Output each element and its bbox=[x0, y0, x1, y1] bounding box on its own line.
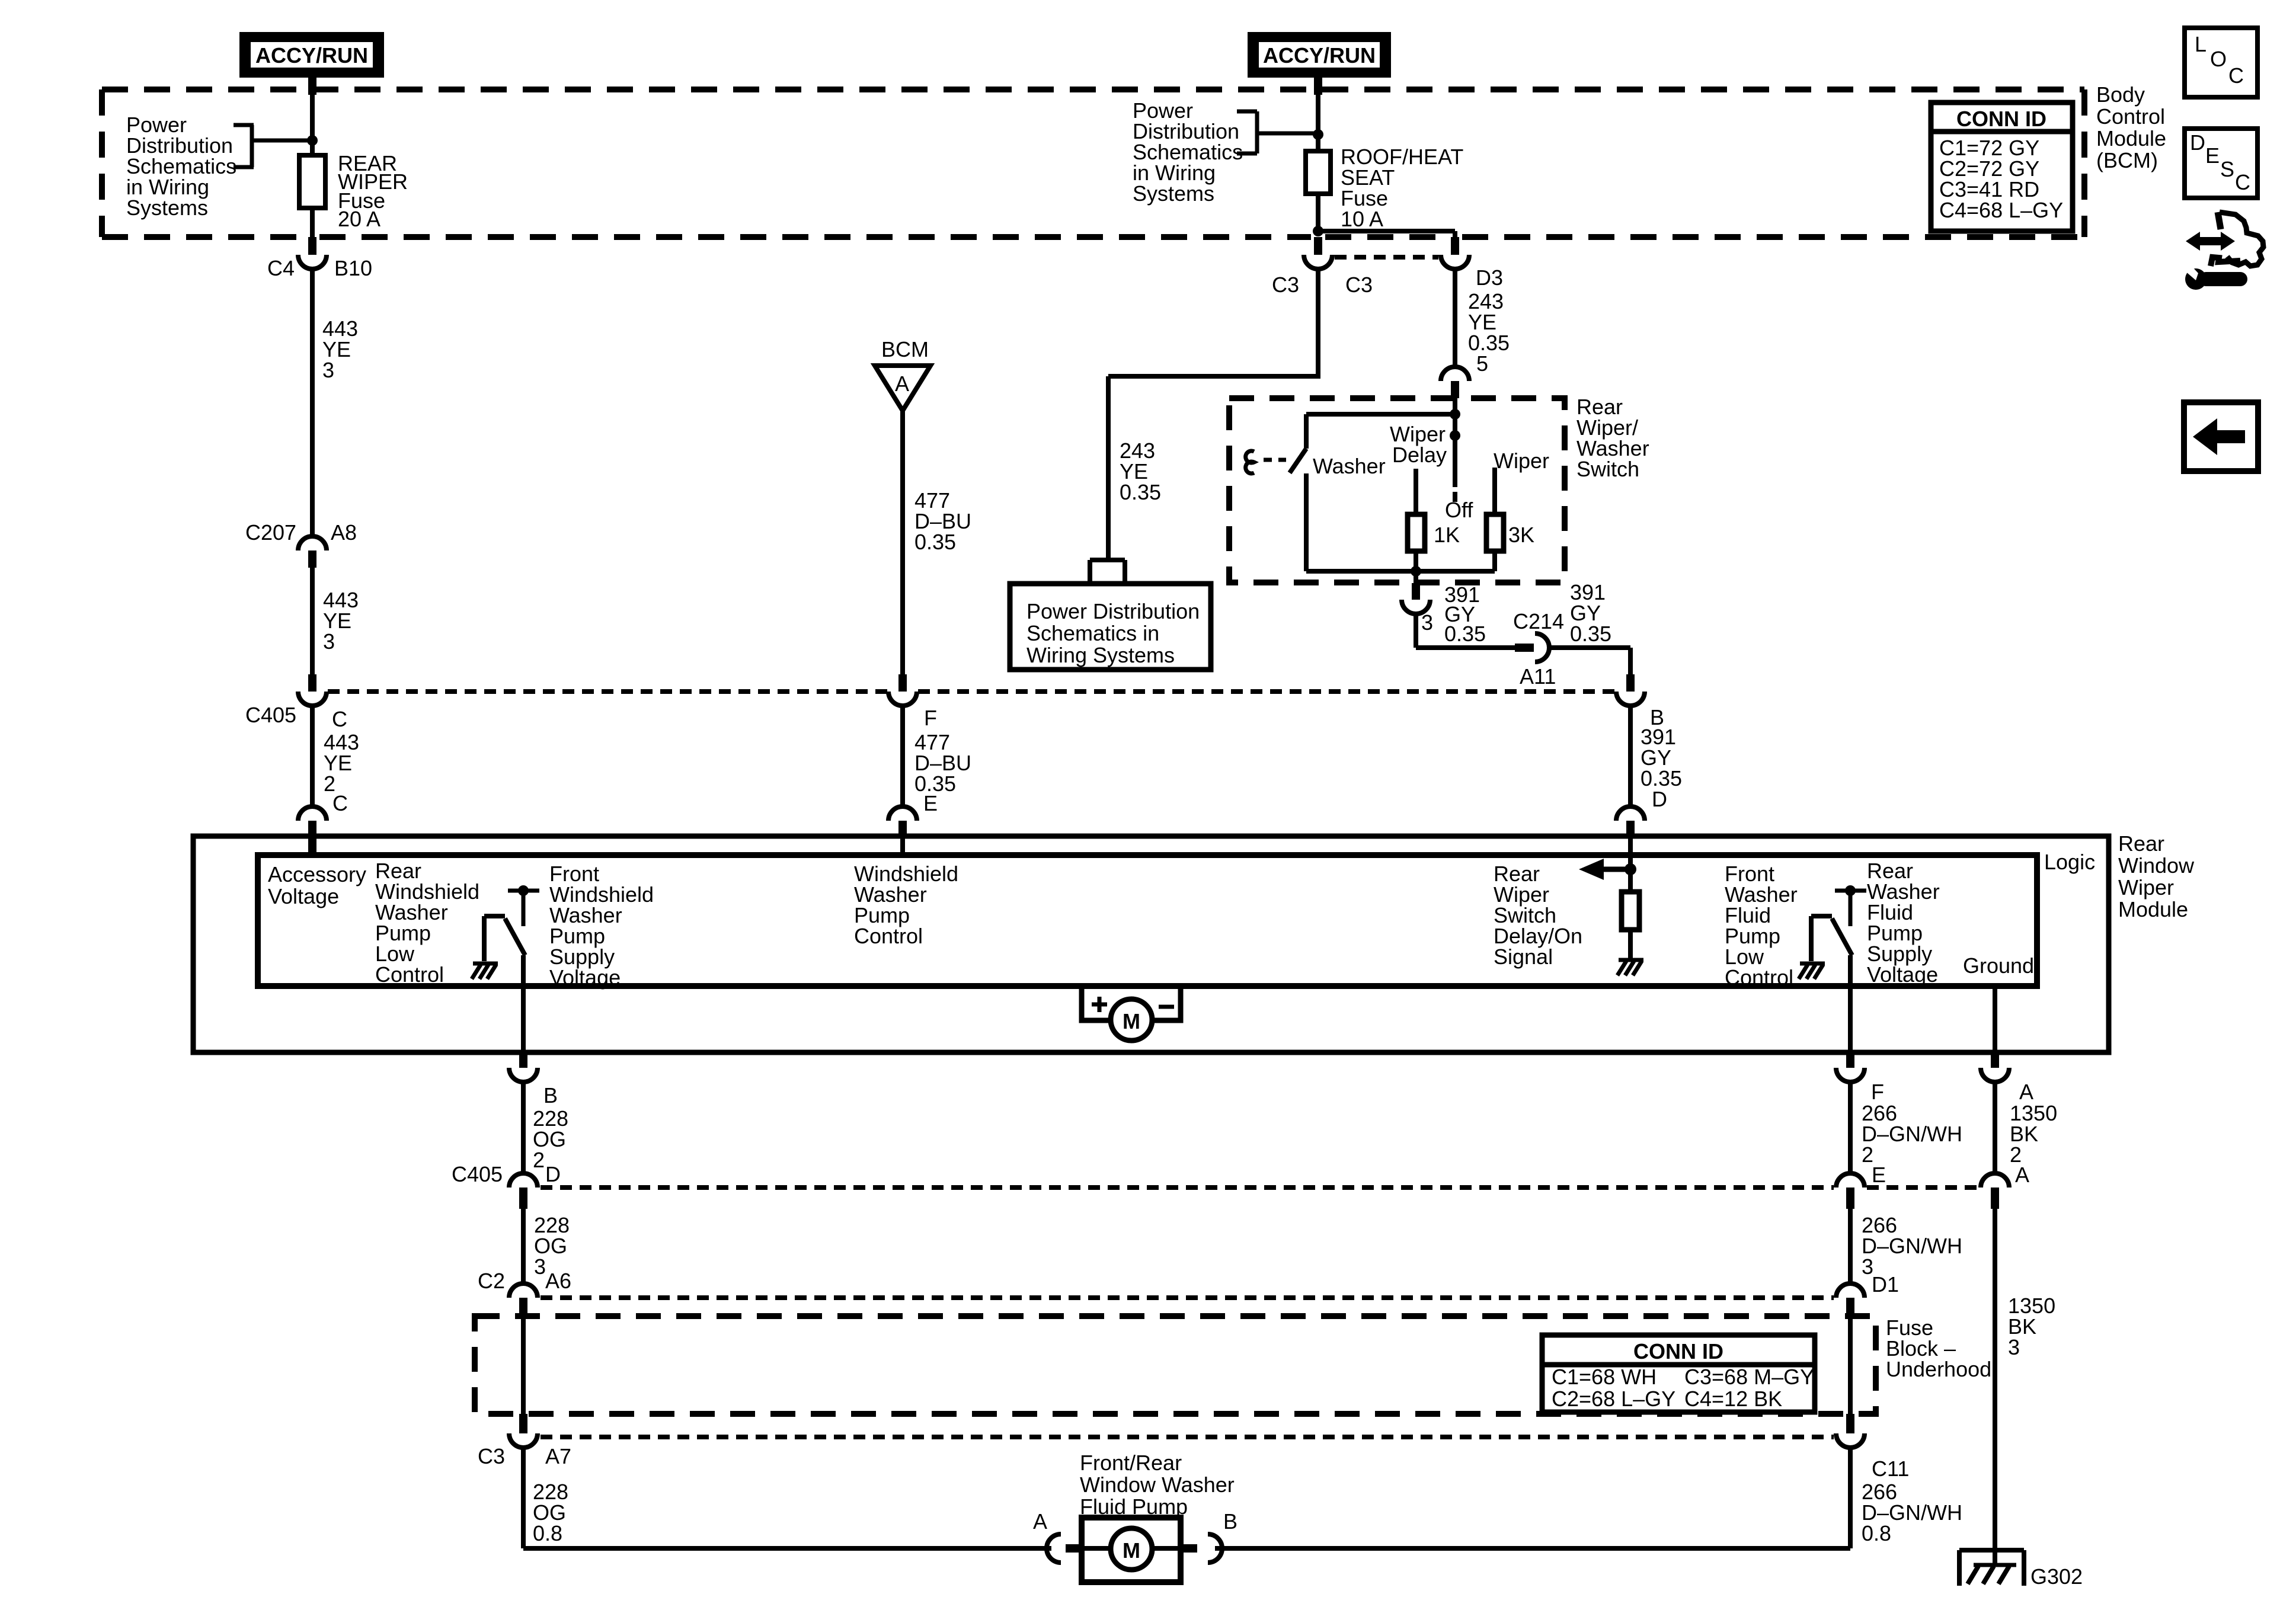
svg-text:BCM: BCM bbox=[881, 337, 929, 361]
svg-text:B: B bbox=[1223, 1509, 1237, 1534]
svg-text:C3: C3 bbox=[1345, 273, 1373, 297]
wire fuse to BCM edge bbox=[310, 208, 315, 237]
svg-text:5: 5 bbox=[1476, 351, 1488, 376]
svg-text:F: F bbox=[1871, 1080, 1884, 1104]
off-page tab into Power Distribution box bbox=[1090, 560, 1125, 584]
wire 1350 BK 3 to ground bbox=[1993, 1209, 1997, 1565]
svg-text:C: C bbox=[2228, 63, 2244, 88]
connector D3 bbox=[1441, 237, 1503, 290]
connector D1 (dome) bbox=[1836, 1272, 1899, 1319]
wire out of switch bbox=[1414, 571, 1418, 583]
svg-text:Wiper: Wiper bbox=[2118, 875, 2174, 900]
Body Control Module dashed boundary bbox=[102, 89, 2084, 237]
svg-text:3K: 3K bbox=[1508, 523, 1534, 547]
svg-text:Body: Body bbox=[2096, 82, 2145, 107]
junction node below fuse2 bbox=[1313, 226, 1323, 236]
module pin F connector bbox=[1836, 1052, 1884, 1104]
switch position labels bbox=[1313, 422, 1549, 547]
svg-text:B: B bbox=[543, 1083, 558, 1108]
svg-text:Signal: Signal bbox=[1494, 945, 1553, 969]
svg-text:2: 2 bbox=[533, 1148, 545, 1172]
svg-text:Window Washer: Window Washer bbox=[1080, 1473, 1235, 1497]
Rear Window Wiper Module outer box bbox=[193, 836, 2109, 1052]
svg-text:Rear: Rear bbox=[2118, 831, 2164, 856]
wire 228 OG 3 bbox=[521, 1209, 526, 1283]
svg-text:A7: A7 bbox=[545, 1444, 571, 1468]
wire 266 D-GN/WH 2 bbox=[1848, 1081, 1853, 1174]
svg-text:C4: C4 bbox=[267, 256, 295, 280]
power feed box ACCY/RUN (left) bbox=[239, 32, 384, 78]
svg-text:M: M bbox=[1123, 1009, 1140, 1033]
svg-text:C3=68 M–GY: C3=68 M–GY bbox=[1684, 1365, 1814, 1389]
svg-text:Off: Off bbox=[1445, 498, 1473, 522]
pin wire Windshield Washer Pump Control bbox=[900, 836, 905, 856]
svg-text:C405: C405 bbox=[245, 703, 296, 727]
connector E (dome, x3122) bbox=[1836, 1163, 1886, 1209]
label Power Distribution Schematics (left) bbox=[126, 113, 236, 220]
wire into switch pole bbox=[1453, 398, 1457, 487]
svg-text:E: E bbox=[923, 791, 938, 815]
ground (internal, left switch) bbox=[472, 964, 498, 979]
node: pole to washer contact bbox=[1450, 409, 1460, 420]
svg-text:0.35: 0.35 bbox=[1444, 622, 1486, 646]
svg-text:(BCM): (BCM) bbox=[2096, 148, 2158, 172]
svg-text:Washer: Washer bbox=[1313, 454, 1386, 478]
svg-text:F: F bbox=[924, 706, 937, 730]
internal switch (front washer pump relay, right) bbox=[1811, 891, 1866, 1052]
svg-text:Accessory: Accessory bbox=[268, 862, 366, 886]
wire C3 down-left to Power Distribution box bbox=[1108, 268, 1320, 560]
svg-text:B10: B10 bbox=[334, 256, 372, 280]
pin label Windshield Washer Pump Control bbox=[854, 862, 958, 948]
svg-text:ACCY/RUN: ACCY/RUN bbox=[1263, 43, 1376, 68]
svg-text:Switch: Switch bbox=[1576, 457, 1639, 481]
svg-text:ACCY/RUN: ACCY/RUN bbox=[255, 43, 368, 68]
svg-text:C: C bbox=[332, 707, 347, 731]
svg-text:3: 3 bbox=[322, 358, 334, 382]
module pin A connector bbox=[1981, 1052, 2033, 1104]
svg-text:Power Distribution: Power Distribution bbox=[1027, 599, 1200, 623]
module pin B connector bbox=[509, 1052, 558, 1108]
label Power Distribution Schematics (mid) bbox=[1133, 98, 1243, 206]
connector D into module (dome) bbox=[1616, 806, 1645, 836]
jump-to icon: pointer outline bbox=[2218, 212, 2263, 266]
bracket from label to wire (left) bbox=[234, 125, 310, 167]
jump-to icon: double arrow bbox=[2186, 232, 2235, 251]
pin wire Rear Wiper Switch signal bbox=[1628, 836, 1633, 856]
internal switch (rear washer pump relay, left) bbox=[484, 891, 539, 1052]
ground (internal, sense resistor) bbox=[1617, 960, 1643, 975]
connector C2/A6 (dome) bbox=[478, 1269, 571, 1319]
wire from ACCY/RUN left down to fuse bbox=[310, 78, 315, 155]
svg-text:A: A bbox=[2015, 1163, 2029, 1187]
svg-text:Module: Module bbox=[2118, 897, 2188, 921]
wire D3 down to switch bbox=[1453, 268, 1457, 367]
svg-text:C1=68 WH: C1=68 WH bbox=[1552, 1365, 1657, 1389]
svg-text:C4=68 L–GY: C4=68 L–GY bbox=[1939, 198, 2063, 222]
svg-text:A11: A11 bbox=[1520, 664, 1556, 689]
pole off-position dash bbox=[1453, 492, 1457, 502]
wire 266 D-GN/WH 0.8 bbox=[1215, 1446, 1850, 1548]
connector C405/D (dome, x883) bbox=[452, 1162, 561, 1209]
wire 1350 BK 2 bbox=[1993, 1081, 1997, 1174]
jump-to icon: wrench bbox=[2183, 264, 2240, 290]
wire 443 YE 3 (lower) bbox=[310, 568, 315, 674]
CONN ID table (fuse block) bbox=[1542, 1335, 1815, 1412]
node on pole (delay feed) bbox=[1450, 430, 1460, 441]
pin label Front Windshield Washer Pump Supply Voltage bbox=[549, 862, 654, 990]
pin stub Accessory Voltage bbox=[308, 836, 316, 856]
wire ACCY/RUN right down bbox=[1316, 78, 1320, 151]
svg-text:10 A: 10 A bbox=[1341, 207, 1383, 231]
svg-text:0.35: 0.35 bbox=[914, 530, 956, 554]
svg-text:Wiring Systems: Wiring Systems bbox=[1027, 643, 1175, 667]
Rear Window Wiper Module logic box bbox=[258, 855, 2037, 986]
wire BCM triangle down bbox=[900, 411, 905, 674]
svg-text:Schematics in: Schematics in bbox=[1027, 621, 1159, 645]
DESC reference box bbox=[2185, 129, 2257, 198]
connector C214 / A11 bbox=[1513, 609, 1564, 689]
wires through fuse block bbox=[521, 1319, 526, 1414]
svg-text:3: 3 bbox=[534, 1254, 546, 1279]
svg-text:L: L bbox=[2195, 32, 2207, 56]
svg-text:C2=68 L–GY: C2=68 L–GY bbox=[1552, 1387, 1675, 1411]
svg-text:Voltage: Voltage bbox=[549, 965, 621, 990]
svg-text:Control: Control bbox=[375, 962, 444, 987]
svg-text:Delay: Delay bbox=[1392, 443, 1447, 467]
svg-text:A: A bbox=[2019, 1080, 2033, 1104]
svg-text:CONN ID: CONN ID bbox=[1956, 107, 2046, 131]
svg-text:Front/Rear: Front/Rear bbox=[1080, 1451, 1182, 1475]
connector E into module (dome) bbox=[888, 806, 917, 836]
CONN ID table (BCM) bbox=[1931, 103, 2073, 231]
svg-text:Voltage: Voltage bbox=[1867, 962, 1938, 987]
svg-text:O: O bbox=[2210, 47, 2227, 71]
svg-text:Window: Window bbox=[2118, 853, 2195, 878]
svg-text:C3: C3 bbox=[478, 1444, 505, 1468]
wire 228 OG 0.8 bbox=[523, 1446, 1051, 1548]
BCM triangle reference A bbox=[875, 337, 930, 411]
svg-text:3: 3 bbox=[2008, 1335, 2020, 1359]
wire label 243 YE 0.35 (left) bbox=[1120, 438, 1161, 504]
label Rear Window Wiper Module bbox=[2118, 831, 2195, 921]
svg-text:D3: D3 bbox=[1476, 265, 1503, 290]
connector F (C405 row) bbox=[888, 674, 937, 730]
svg-text:0.8: 0.8 bbox=[1862, 1521, 1891, 1545]
svg-text:Control: Control bbox=[2096, 104, 2165, 129]
svg-text:C: C bbox=[332, 791, 348, 815]
svg-text:A: A bbox=[1033, 1509, 1047, 1534]
svg-text:A: A bbox=[895, 372, 909, 396]
svg-text:D: D bbox=[2190, 130, 2205, 155]
fuse ROOF/HEAT SEAT 10 A bbox=[1306, 151, 1331, 194]
wire 443 YE 2 bbox=[310, 705, 315, 807]
svg-text:C: C bbox=[2235, 170, 2250, 194]
wire 477 D-BU 0.35 lower bbox=[900, 705, 905, 807]
svg-text:Voltage: Voltage bbox=[268, 884, 339, 908]
svg-text:E: E bbox=[2205, 143, 2220, 168]
washer contact feed line bbox=[1306, 412, 1455, 417]
Fuse Block - Underhood dashed box bbox=[475, 1316, 1876, 1414]
svg-text:1K: 1K bbox=[1434, 523, 1460, 547]
dotted connector link C3-D3 bbox=[1335, 255, 1438, 260]
pin label Front Washer Fluid Pump Low Control bbox=[1725, 862, 1798, 990]
wiper motor in module bbox=[1082, 986, 1181, 1041]
ground (internal, right switch) bbox=[1799, 964, 1825, 979]
jump-to icon: lower stroke bbox=[2211, 257, 2240, 266]
svg-text:0.35: 0.35 bbox=[1120, 480, 1161, 504]
svg-text:3: 3 bbox=[323, 629, 335, 654]
Power Distribution Schematics box bbox=[1010, 584, 1211, 670]
svg-text:Module: Module bbox=[2096, 126, 2166, 151]
svg-text:Systems: Systems bbox=[126, 196, 208, 220]
wire 266 D-GN/WH 3 bbox=[1848, 1209, 1853, 1283]
svg-text:D1: D1 bbox=[1872, 1272, 1899, 1297]
in-line connector row C2/D1 (dotted) bbox=[541, 1295, 1834, 1300]
connector C207/A8 bbox=[245, 520, 357, 568]
svg-text:Ground: Ground bbox=[1963, 953, 2034, 978]
resistor 1K bbox=[1414, 469, 1418, 514]
svg-text:CONN ID: CONN ID bbox=[1633, 1339, 1723, 1363]
svg-text:M: M bbox=[1123, 1538, 1140, 1563]
svg-text:C4=12 BK: C4=12 BK bbox=[1684, 1387, 1782, 1411]
svg-text:C11: C11 bbox=[1872, 1457, 1909, 1481]
switch bottom bus bbox=[1306, 569, 1495, 574]
Front/Rear Window Washer Fluid Pump motor bbox=[1082, 1518, 1181, 1582]
wire label 243 YE 0.35 5 (right) bbox=[1468, 289, 1510, 376]
svg-text:3: 3 bbox=[1421, 610, 1433, 635]
pin label Rear Wiper Switch Delay/On Signal bbox=[1494, 862, 1582, 969]
wire 443 YE 3 (upper) bbox=[310, 268, 315, 537]
svg-text:Control: Control bbox=[1725, 965, 1793, 990]
svg-text:C2: C2 bbox=[478, 1269, 505, 1293]
junction node on right feed bbox=[1313, 129, 1323, 140]
junction node on left feed bbox=[307, 135, 318, 146]
connector C11 bbox=[1836, 1414, 1909, 1481]
in-line connector row C405 (dotted harness line) bbox=[328, 689, 1615, 694]
internal sense resistor + arrow bbox=[1628, 856, 1633, 892]
branch wire to D3 bbox=[1318, 229, 1455, 233]
svg-text:Underhood: Underhood bbox=[1886, 1357, 1991, 1381]
fuse REAR WIPER 20 A bbox=[299, 155, 325, 208]
svg-text:A8: A8 bbox=[331, 520, 357, 545]
connector 5 into switch (dome) bbox=[1441, 367, 1469, 398]
connector C into module (dome) bbox=[298, 806, 327, 836]
pin label Rear Windshield Washer Pump Low Control bbox=[375, 859, 479, 987]
connector C405/C (left) bbox=[245, 674, 347, 731]
washer switch lever bbox=[1290, 414, 1306, 571]
svg-text:A6: A6 bbox=[545, 1269, 571, 1293]
svg-text:Systems: Systems bbox=[1133, 181, 1214, 206]
back-arrow box bbox=[2184, 402, 2258, 471]
in-line connector row C3/C11 (dotted) bbox=[541, 1435, 1834, 1439]
svg-text:E: E bbox=[1872, 1163, 1886, 1187]
svg-text:0.8: 0.8 bbox=[533, 1521, 562, 1545]
connector B (rear wiper switch signal) bbox=[1616, 674, 1664, 729]
svg-text:0.35: 0.35 bbox=[1468, 331, 1510, 355]
wire 391 GY 0.35 lower bbox=[1628, 705, 1633, 807]
in-line connector row C405 (lower, dotted) bbox=[541, 1185, 1978, 1190]
svg-text:S: S bbox=[2220, 157, 2234, 181]
pump connector A bbox=[1033, 1509, 1082, 1563]
Rear Wiper/Washer Switch dashed box bbox=[1229, 398, 1565, 582]
label Body Control Module (BCM) bbox=[2096, 82, 2166, 172]
svg-text:D: D bbox=[1652, 787, 1667, 811]
wire C214 to corner bbox=[1548, 648, 1630, 674]
connector A (dome, x3366) bbox=[1981, 1163, 2029, 1209]
pin label Rear Washer Fluid Pump Supply Voltage bbox=[1867, 859, 1940, 987]
ground G302 bbox=[1959, 1550, 2083, 1589]
washer switch detent bbox=[1246, 451, 1254, 473]
ground pin wire bbox=[1993, 986, 1997, 1052]
svg-text:C214: C214 bbox=[1513, 609, 1564, 633]
connector C4/B10 bbox=[267, 237, 372, 280]
connector C3 (left pin of BCM C3) bbox=[1272, 237, 1373, 297]
svg-text:C405: C405 bbox=[452, 1162, 503, 1186]
pin label Accessory Voltage bbox=[268, 862, 366, 908]
svg-text:20 A: 20 A bbox=[338, 207, 380, 231]
svg-text:Control: Control bbox=[854, 924, 923, 948]
resistor 3K bbox=[1492, 468, 1497, 514]
svg-text:0.35: 0.35 bbox=[1570, 622, 1611, 646]
wire 391 GY 0.35 to C214 bbox=[1416, 613, 1515, 648]
svg-text:D–GN/WH: D–GN/WH bbox=[1862, 1234, 1962, 1258]
bracket from label to wire (mid) bbox=[1237, 111, 1316, 153]
svg-text:D–GN/WH: D–GN/WH bbox=[1862, 1122, 1962, 1146]
svg-text:C207: C207 bbox=[245, 520, 296, 545]
svg-text:C3: C3 bbox=[1272, 273, 1299, 297]
node bottom bus bbox=[1411, 566, 1421, 577]
label Front/Rear Window Washer Fluid Pump bbox=[1080, 1451, 1235, 1519]
LOC reference box bbox=[2185, 28, 2257, 97]
pump connector B bbox=[1181, 1509, 1237, 1563]
svg-text:Wiper: Wiper bbox=[1494, 449, 1549, 473]
svg-text:D: D bbox=[545, 1162, 561, 1186]
power feed box ACCY/RUN (right) bbox=[1248, 32, 1391, 78]
wire fuse2 to junction bbox=[1316, 194, 1320, 231]
svg-text:G302: G302 bbox=[2030, 1564, 2083, 1589]
svg-text:Logic: Logic bbox=[2044, 850, 2095, 874]
wire 228 OG 2 bbox=[521, 1081, 526, 1174]
connector 3 (out of switch) bbox=[1402, 583, 1433, 635]
connector C3/A7 bbox=[478, 1414, 571, 1468]
